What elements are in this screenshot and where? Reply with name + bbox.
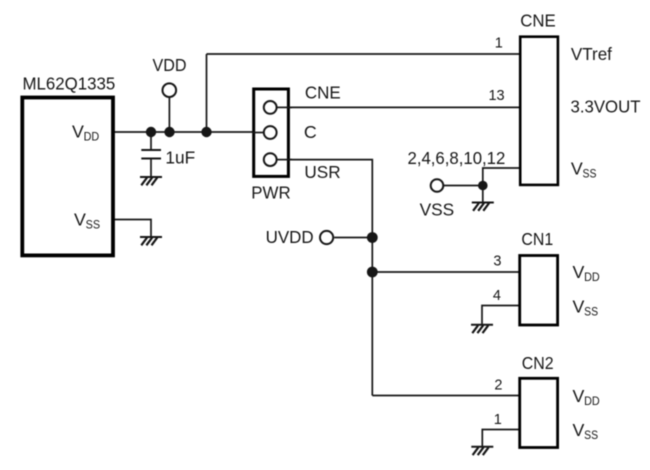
svg-text:1: 1 bbox=[494, 412, 502, 428]
wire PWR pin C stub bbox=[253, 132, 265, 134]
wire CN2 pin2 bbox=[372, 395, 519, 397]
svg-text:CN1: CN1 bbox=[521, 229, 553, 249]
svg-text:2: 2 bbox=[494, 378, 502, 394]
PWR pin circle C bbox=[264, 126, 277, 139]
svg-text:V: V bbox=[573, 296, 585, 316]
wire CNE VSS net bbox=[444, 168, 520, 203]
connector CN1 bbox=[520, 256, 558, 326]
wire CN1 pin3 bbox=[372, 271, 519, 273]
svg-text:2,4,6,8,10,12: 2,4,6,8,10,12 bbox=[408, 148, 506, 168]
ground (capacitor) bbox=[140, 177, 162, 185]
wire PWR pin CNE stub bbox=[277, 106, 292, 108]
svg-text:DD: DD bbox=[84, 129, 100, 143]
svg-text:SS: SS bbox=[584, 304, 598, 318]
junction dot UVDD bbox=[367, 232, 378, 243]
junction dot CN1 bbox=[367, 267, 378, 278]
svg-text:C: C bbox=[304, 122, 317, 142]
svg-text:SS: SS bbox=[584, 428, 598, 442]
svg-text:3: 3 bbox=[493, 254, 501, 270]
svg-text:SS: SS bbox=[583, 166, 597, 180]
svg-text:CNE: CNE bbox=[520, 11, 556, 31]
svg-text:SS: SS bbox=[86, 217, 101, 231]
connector CNE bbox=[520, 37, 558, 185]
wire cap bottom lead bbox=[150, 159, 152, 177]
PWR pin circle USR bbox=[264, 153, 277, 166]
ground (CN2 pin1) bbox=[471, 447, 493, 455]
ground (ML62 VSS) bbox=[140, 237, 162, 245]
svg-text:VTref: VTref bbox=[571, 44, 612, 64]
capacitor C1 plates bbox=[141, 150, 161, 159]
wire cap top lead bbox=[150, 132, 152, 150]
svg-text:VDD: VDD bbox=[153, 55, 187, 75]
svg-text:3.3VOUT: 3.3VOUT bbox=[571, 97, 641, 117]
junction dot A bbox=[146, 127, 156, 137]
junction dot C bbox=[201, 127, 211, 137]
svg-text:DD: DD bbox=[584, 394, 600, 408]
PWR pin circle CNE bbox=[264, 101, 277, 114]
wire CN1 pin4 bbox=[482, 306, 520, 325]
wire VDD supply stub bbox=[168, 98, 170, 133]
wire UVDD stub bbox=[334, 237, 372, 239]
svg-text:DD: DD bbox=[584, 270, 600, 284]
wire USR net bbox=[276, 160, 372, 396]
svg-text:V: V bbox=[571, 158, 583, 178]
svg-text:13: 13 bbox=[488, 88, 504, 104]
junction dot B bbox=[164, 127, 174, 137]
ground (CN1 pin4) bbox=[471, 325, 493, 333]
ground (CNE VSS) bbox=[472, 203, 494, 211]
junction dot VSS bbox=[478, 181, 488, 191]
svg-text:VSS: VSS bbox=[420, 200, 455, 220]
wire CN2 pin1 bbox=[482, 430, 519, 447]
wire riser to top bbox=[206, 54, 208, 132]
svg-text:4: 4 bbox=[493, 288, 501, 304]
supply terminal VDD bbox=[163, 83, 177, 97]
wire PWR CNE pin to CNE pin13 bbox=[276, 106, 520, 108]
svg-text:1uF: 1uF bbox=[165, 147, 195, 167]
svg-text:ML62Q1335: ML62Q1335 bbox=[23, 74, 116, 94]
svg-text:CN2: CN2 bbox=[522, 353, 554, 373]
supply terminal UVDD bbox=[320, 231, 333, 244]
IC U1 ML62Q1335 bbox=[22, 98, 113, 256]
wire VDD main bbox=[113, 131, 263, 133]
svg-text:CNE: CNE bbox=[305, 83, 341, 103]
svg-text:V: V bbox=[74, 209, 86, 229]
svg-text:PWR: PWR bbox=[251, 183, 291, 203]
connector PWR bbox=[254, 89, 289, 176]
connector CN2 bbox=[520, 378, 558, 447]
svg-text:V: V bbox=[573, 420, 585, 440]
wire ML62 VSS to ground bbox=[113, 220, 151, 237]
svg-text:V: V bbox=[573, 386, 585, 406]
svg-text:V: V bbox=[573, 262, 585, 282]
wire PWR pin USR stub bbox=[277, 159, 292, 161]
supply terminal VSS bbox=[431, 179, 444, 192]
svg-text:1: 1 bbox=[495, 36, 503, 52]
svg-text:UVDD: UVDD bbox=[266, 227, 314, 247]
wire top to CNE pin1 bbox=[207, 53, 521, 55]
svg-text:USR: USR bbox=[304, 162, 340, 182]
svg-text:V: V bbox=[72, 121, 84, 141]
